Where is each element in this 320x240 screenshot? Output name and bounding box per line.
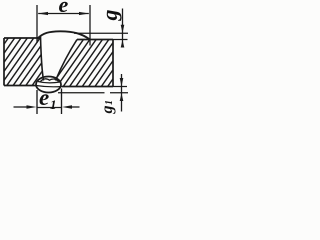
svg-text:g: g [99,106,116,115]
svg-text:1: 1 [50,97,57,112]
svg-text:g: g [97,10,122,22]
svg-text:e: e [59,0,69,17]
svg-text:e: e [39,85,49,110]
svg-text:1: 1 [104,100,115,105]
